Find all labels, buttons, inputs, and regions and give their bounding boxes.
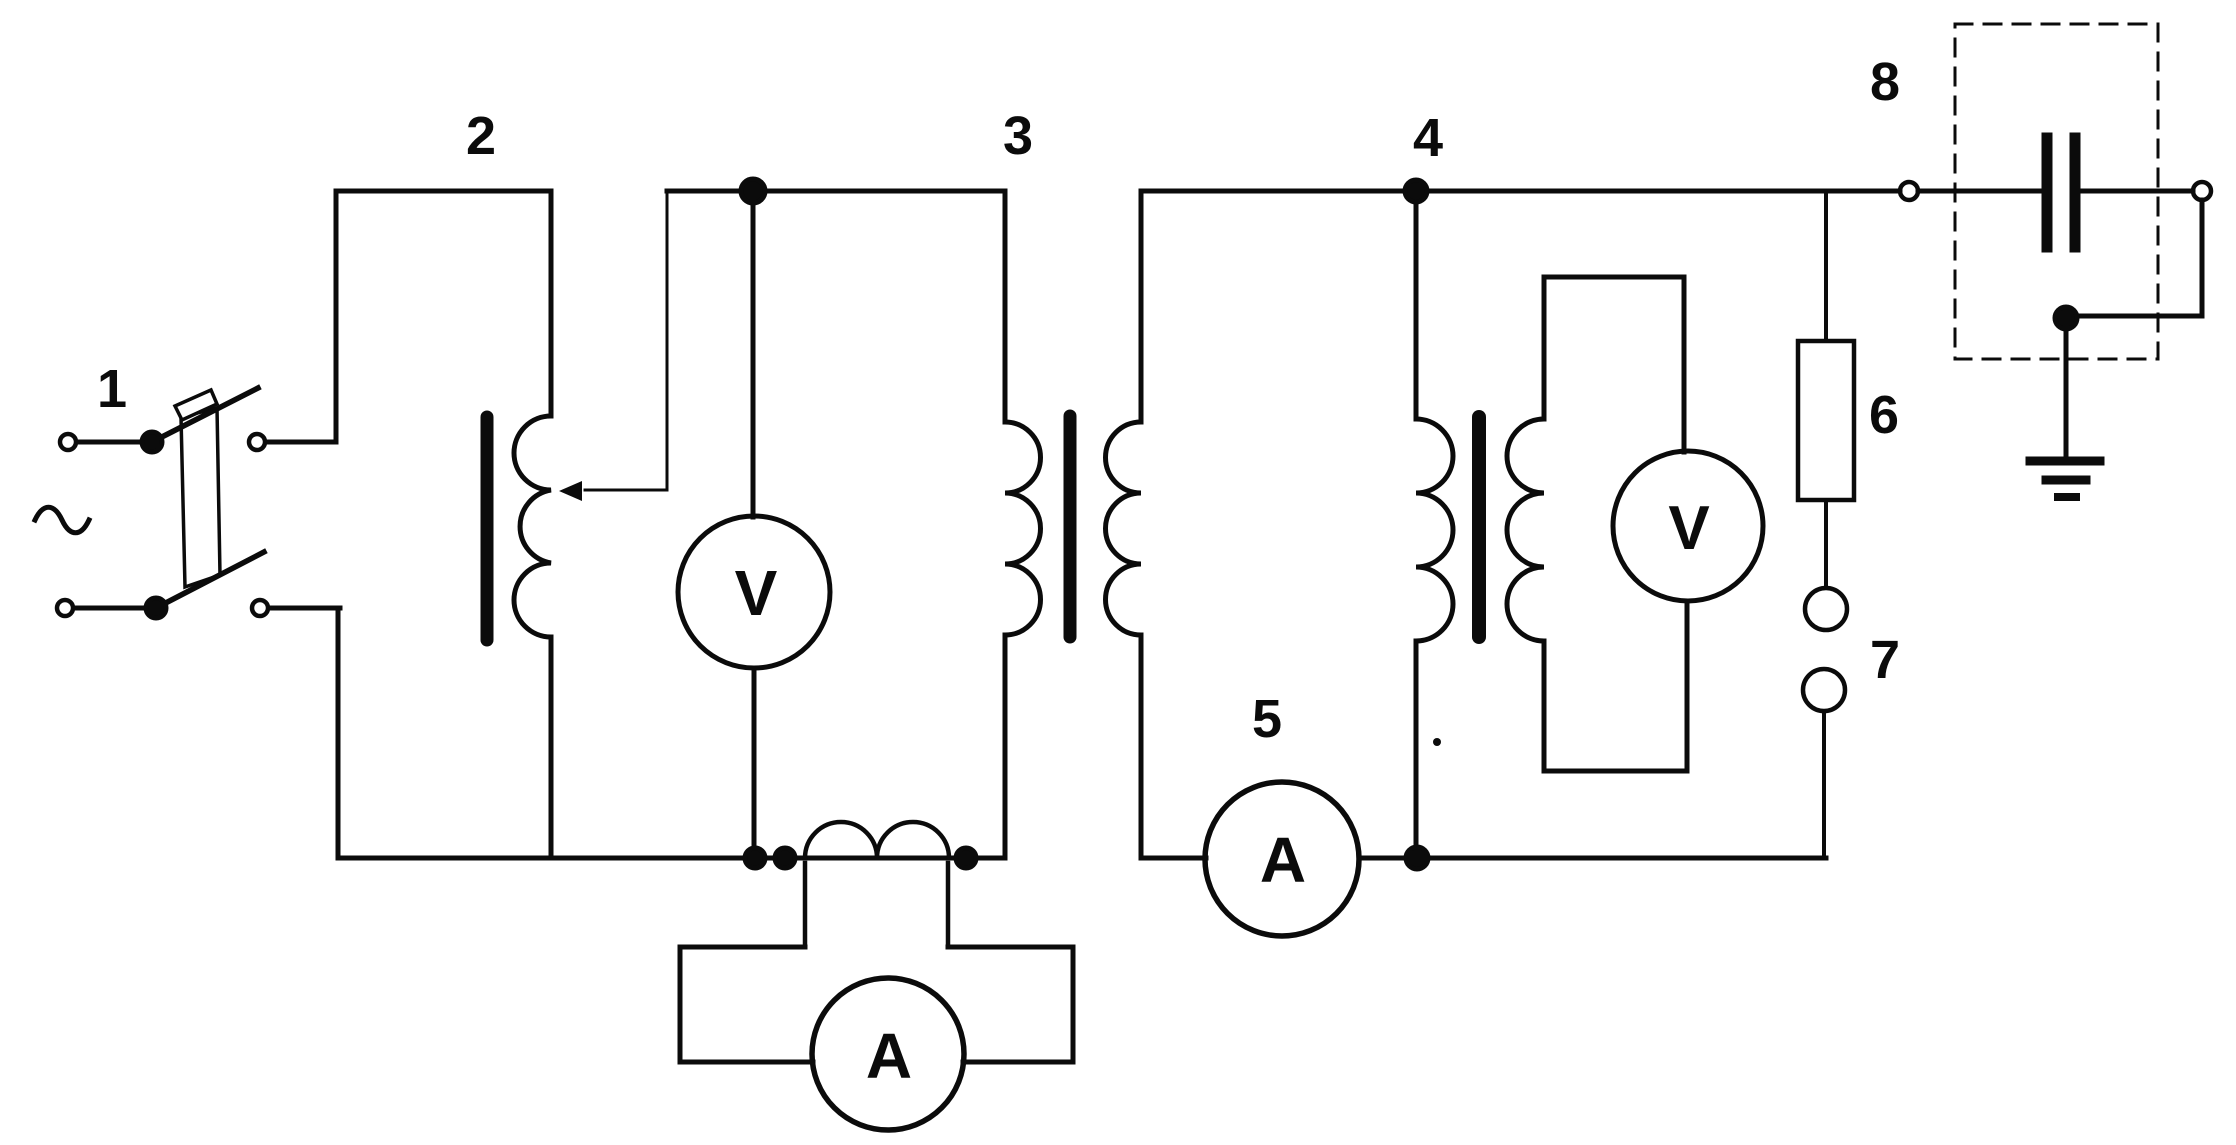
svg-text:2: 2 (466, 106, 496, 166)
svg-text:1: 1 (97, 359, 127, 419)
svg-text:A: A (866, 1020, 912, 1092)
svg-text:A: A (1260, 824, 1306, 896)
svg-text:3: 3 (1003, 106, 1033, 166)
svg-text:8: 8 (1870, 52, 1900, 112)
svg-text:V: V (1668, 494, 1709, 563)
svg-text:V: V (735, 557, 778, 629)
svg-text:7: 7 (1870, 630, 1900, 690)
svg-text:6: 6 (1869, 385, 1899, 445)
svg-text:4: 4 (1413, 108, 1443, 168)
svg-text:5: 5 (1252, 689, 1282, 749)
